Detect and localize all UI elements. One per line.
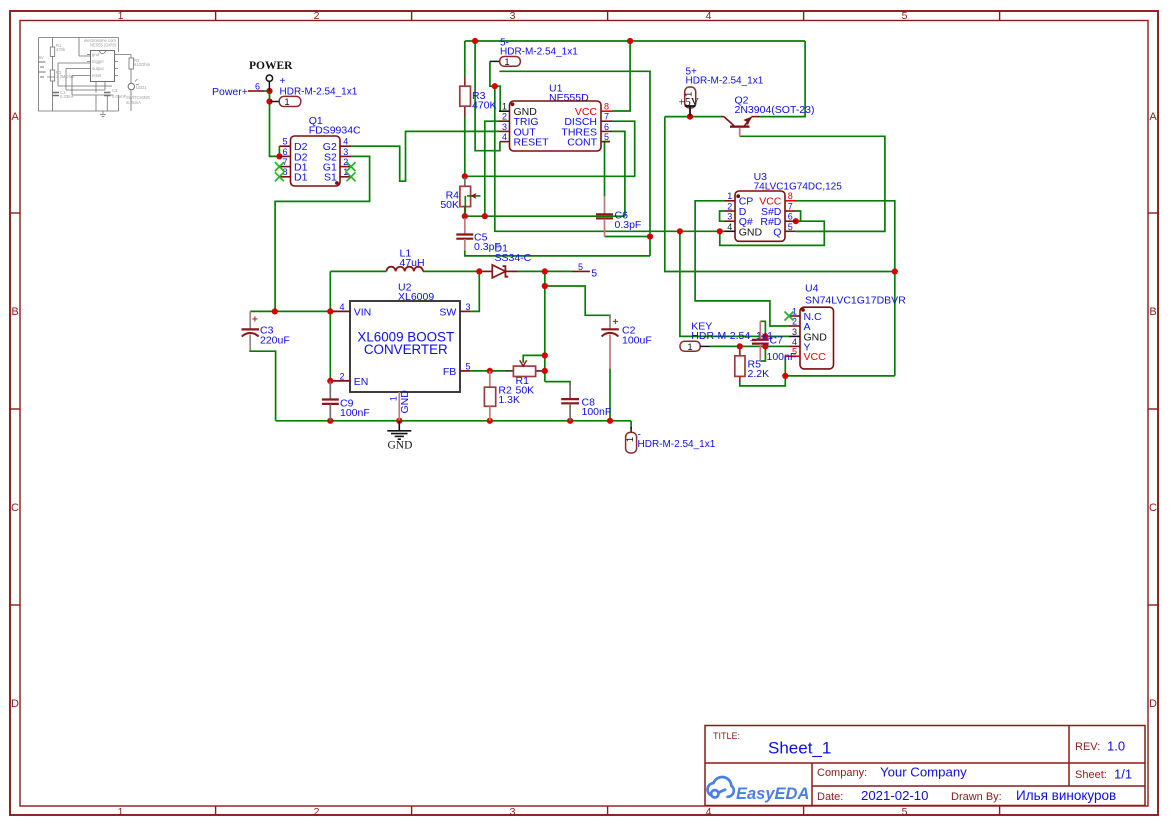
svg-text:2.2K: 2.2K xyxy=(748,368,770,380)
svg-text:C: C xyxy=(11,502,19,514)
svg-text:8: 8 xyxy=(604,102,609,112)
svg-text:B: B xyxy=(1149,306,1156,318)
junction logic GND rail to U4 xyxy=(677,228,683,234)
svg-text:2: 2 xyxy=(792,316,797,326)
svg-text:+: + xyxy=(613,317,619,328)
svg-text:trigger: trigger xyxy=(92,59,104,64)
svg-text:1: 1 xyxy=(625,437,636,442)
svg-text:Power+: Power+ xyxy=(212,86,248,98)
svg-text:Илья винокуров: Илья винокуров xyxy=(1016,788,1116,803)
svg-text:NE555 (DIP8): NE555 (DIP8) xyxy=(90,43,117,48)
wire C5 bottom to x650 xyxy=(465,251,650,256)
svg-text:CONVERTER: CONVERTER xyxy=(364,342,448,357)
svg-text:RESET: RESET xyxy=(514,137,550,149)
wire U1 CONT to C6 top xyxy=(605,142,611,197)
wire U3 GND to R#D loop xyxy=(720,221,825,245)
wire Q1 pin5 to pin6 xyxy=(278,146,280,156)
wire Power+ to junction xyxy=(264,90,270,92)
capacitor C7 100nF xyxy=(752,321,796,363)
svg-text:1/1: 1/1 xyxy=(1114,767,1132,782)
svg-text:GND: GND xyxy=(388,440,413,452)
svg-text:5: 5 xyxy=(902,10,908,22)
svg-text:1: 1 xyxy=(727,191,732,201)
wire U3 pins7-6 bracket xyxy=(796,211,801,221)
svg-text:1.3K: 1.3K xyxy=(498,394,520,406)
svg-text:3: 3 xyxy=(465,302,470,312)
svg-text:2021-02-10: 2021-02-10 xyxy=(861,788,928,803)
svg-text:5: 5 xyxy=(282,137,287,147)
svg-text:2: 2 xyxy=(314,10,320,22)
svg-text:HDR-M-2.54_1x1: HDR-M-2.54_1x1 xyxy=(638,439,716,450)
junction R5 top on KEY net xyxy=(737,343,743,349)
wire C8 top xyxy=(545,382,570,385)
svg-text:470k: 470k xyxy=(56,47,66,52)
svg-text:EasyEDA: EasyEDA xyxy=(736,785,809,803)
wire R3 bottom to DISCH node xyxy=(464,116,466,176)
svg-text:4: 4 xyxy=(727,222,732,232)
wire U3 pins2-3 bracket xyxy=(720,211,725,221)
IC U2 XL6009 xyxy=(333,282,471,421)
svg-text:B: B xyxy=(11,306,18,318)
svg-text:3: 3 xyxy=(727,212,732,222)
junction C9 on GND rail xyxy=(327,418,333,424)
wire C3 bottom loop xyxy=(250,350,275,421)
capacitor C8 100nF xyxy=(561,382,611,421)
junction C2 on GND rail xyxy=(607,418,613,424)
wire VIN vertical to L1 and EN xyxy=(329,271,331,381)
junction U2 GND pin on GND rail xyxy=(396,418,402,424)
wire U1 RESET hook to rail xyxy=(475,41,500,151)
wire U3 VCC to +5V vertical xyxy=(796,201,895,376)
svg-text:GND: GND xyxy=(739,226,763,238)
svg-text:1: 1 xyxy=(118,10,124,22)
svg-text:4: 4 xyxy=(706,806,712,818)
wire +5V down right loop xyxy=(665,117,895,272)
wire VCC top rail y41 xyxy=(465,40,805,42)
svg-text:Sheet:: Sheet: xyxy=(1075,769,1107,781)
svg-text:LED1: LED1 xyxy=(136,85,147,90)
junction Q1 pin6 xyxy=(276,153,282,159)
svg-text:6: 6 xyxy=(788,212,793,222)
junction EN pin / C9 xyxy=(327,378,333,384)
svg-text:5: 5 xyxy=(578,262,583,272)
netport 5 xyxy=(572,262,598,279)
wire logic GND rail y231 xyxy=(495,86,725,231)
svg-text:3: 3 xyxy=(510,10,516,22)
svg-text:0.33mF: 0.33mF xyxy=(60,94,75,99)
svg-text:SS34-C: SS34-C xyxy=(495,252,532,264)
wire rail y216 R4/C5 to THRES xyxy=(465,215,625,217)
svg-text:4: 4 xyxy=(706,10,712,22)
wire C6 bottom to x650 xyxy=(605,236,651,238)
svg-text:4: 4 xyxy=(502,132,507,142)
resistor R5 2.2K xyxy=(735,346,769,382)
junction C7 top on U4 GND net xyxy=(762,333,768,339)
junction R1 wiper branch xyxy=(542,352,548,358)
wire R1 right terminal xyxy=(542,370,545,372)
svg-text:C7: C7 xyxy=(770,335,784,347)
header HDR-M-2.54_1x1 (bottom) xyxy=(625,427,716,453)
svg-text:w.25mA: w.25mA xyxy=(126,100,141,105)
junction C2 top branch xyxy=(542,283,548,289)
title block texts xyxy=(713,731,1132,803)
svg-text:910Ohm: 910Ohm xyxy=(134,62,151,67)
svg-text:5: 5 xyxy=(604,132,609,142)
junction 555 VCC rail / pin8 xyxy=(627,38,633,44)
svg-text:SN74LVC1G17DBVR: SN74LVC1G17DBVR xyxy=(805,295,906,307)
junction +5V node xyxy=(687,114,693,120)
svg-text:VIN: VIN xyxy=(354,306,372,318)
svg-text:6: 6 xyxy=(255,82,260,92)
svg-text:FDS9934C: FDS9934C xyxy=(309,124,361,136)
wire bottom HDR drop xyxy=(630,421,632,429)
junction C7 bottom on KEY net xyxy=(762,343,768,349)
junction FB / R1 / R2 xyxy=(487,368,493,374)
junction R3/R4/DISCH xyxy=(462,173,468,179)
title block xyxy=(705,726,1145,806)
wires (green nets) xyxy=(250,41,895,428)
wire U1 TRIG down xyxy=(485,121,499,216)
svg-text:2: 2 xyxy=(502,112,507,122)
resistor R2 1.3K xyxy=(484,371,520,421)
wire D1 cathode to net5 xyxy=(517,270,572,272)
svg-text:2N3904(SOT-23): 2N3904(SOT-23) xyxy=(735,104,815,116)
potentiometer R4 50K xyxy=(440,178,480,217)
frame row labels xyxy=(11,111,1157,710)
wire Power+ rail down to Q1 pin6 xyxy=(270,91,280,156)
svg-text:5: 5 xyxy=(465,361,470,371)
svg-text:6: 6 xyxy=(604,122,609,132)
junction 555 GND / header 5- xyxy=(492,83,498,89)
svg-text:100uF: 100uF xyxy=(622,335,652,347)
power flag +5V xyxy=(679,96,700,116)
svg-text:7: 7 xyxy=(788,201,793,211)
wire U1 THRES down xyxy=(612,131,625,216)
capacitor C2 100uF xyxy=(601,315,651,369)
net label Power+ pin 6 xyxy=(212,82,264,99)
EasyEDA logo xyxy=(707,777,809,803)
svg-text:CONT: CONT xyxy=(567,137,597,149)
wire to L1 left xyxy=(330,270,386,272)
junction Power+ at net flag xyxy=(266,88,272,94)
svg-text:HDR-M-2.54_1x1: HDR-M-2.54_1x1 xyxy=(686,76,764,87)
wire U4 VCC down to node xyxy=(784,356,786,376)
wire U1 GND hook xyxy=(495,86,500,111)
IC U3 74LVC1G74DC,125 xyxy=(725,171,843,241)
svg-text:A: A xyxy=(11,111,19,123)
svg-text:D: D xyxy=(1149,698,1157,710)
svg-text:1: 1 xyxy=(118,806,124,818)
wire KEY to U4 Y xyxy=(710,345,789,347)
svg-text:S1: S1 xyxy=(324,172,337,184)
svg-text:D: D xyxy=(11,698,19,710)
wire logic GND down to U4 GND xyxy=(680,231,789,336)
svg-text:Drawn By:: Drawn By: xyxy=(951,791,1002,803)
svg-text:7: 7 xyxy=(604,112,609,122)
junction +5V right loop xyxy=(892,268,898,274)
svg-text:100nF: 100nF xyxy=(340,407,370,419)
svg-text:C: C xyxy=(1149,502,1157,514)
junction U3 R#D pin xyxy=(793,218,799,224)
wire SW up to D1 node xyxy=(470,271,479,311)
wire R5 bottom loop xyxy=(740,376,786,386)
svg-text:1: 1 xyxy=(284,97,289,108)
junction C6 bottom xyxy=(647,233,653,239)
wire U1 DISCH to R4 top xyxy=(465,121,635,176)
wire main GND rail xyxy=(276,420,631,422)
svg-text:Your Company: Your Company xyxy=(880,765,967,780)
transistor Q1 FDS9934C xyxy=(275,115,361,186)
svg-text:C2: C2 xyxy=(112,88,118,93)
svg-text:0.01mF: 0.01mF xyxy=(112,94,127,99)
junction R4 bottom / C5 xyxy=(462,213,468,219)
header P1 HDR-M-2.54_1x1 (Power+) xyxy=(270,76,358,108)
wire R3 top xyxy=(464,41,466,77)
wire L1 right to D1 node xyxy=(423,270,483,272)
header HDR-M-2.54_1x1 (net 5-) xyxy=(490,38,578,68)
svg-text:100nF: 100nF xyxy=(767,351,797,363)
svg-text:6: 6 xyxy=(282,147,287,157)
svg-text:3: 3 xyxy=(510,806,516,818)
svg-text:reset: reset xyxy=(92,73,102,78)
junction U4 VCC / R5 xyxy=(782,373,788,379)
wire U3 CP to U4 A xyxy=(695,201,789,326)
svg-text:470K: 470K xyxy=(472,100,497,112)
junction U3 GND pin xyxy=(717,228,723,234)
junction L1 / D1 / SW xyxy=(476,268,482,274)
svg-text:5: 5 xyxy=(788,222,793,232)
svg-text:Company:: Company: xyxy=(817,767,867,779)
svg-text:FB: FB xyxy=(443,366,456,378)
wire C2 top path xyxy=(545,286,610,318)
svg-text:+: + xyxy=(280,76,286,87)
svg-text:3: 3 xyxy=(792,327,797,337)
capacitor C6 0.3pF xyxy=(596,196,641,236)
svg-text:1: 1 xyxy=(389,396,399,401)
wire HDR 5- pin down xyxy=(490,61,495,86)
ground flag GND xyxy=(387,421,412,452)
junction R2 on GND rail xyxy=(487,418,493,424)
svg-text:1: 1 xyxy=(502,102,507,112)
wire U1 VCC to rail xyxy=(612,41,630,111)
svg-text:EN: EN xyxy=(354,376,369,388)
svg-text:GND: GND xyxy=(399,390,411,414)
svg-text:U4: U4 xyxy=(805,283,819,295)
svg-text:2: 2 xyxy=(314,806,320,818)
junction TRIG rail xyxy=(482,213,488,219)
svg-text:Q: Q xyxy=(773,226,781,238)
wire Q2 emitter to rail xyxy=(760,41,806,117)
svg-text:0.3pF: 0.3pF xyxy=(615,219,642,231)
svg-text:50K: 50K xyxy=(440,199,459,211)
svg-text:3: 3 xyxy=(502,122,507,132)
wire x650 vertical with top horizontal y71 xyxy=(499,71,650,256)
svg-text:+5V: +5V xyxy=(679,96,700,108)
capacitor C9 100nF xyxy=(322,381,370,421)
wire C2/R1 vertical xyxy=(544,271,546,381)
svg-text:3.3MOhm: 3.3MOhm xyxy=(56,74,75,79)
svg-text:9V: 9V xyxy=(39,55,44,60)
wire C7 bottom bracket xyxy=(760,346,765,361)
header KEY HDR-M-2.54_1x1 xyxy=(680,320,773,353)
resistor R3 470K xyxy=(460,77,497,117)
svg-text:SW: SW xyxy=(439,306,456,318)
frame column labels bottom xyxy=(118,806,908,818)
IC U1 NE555D xyxy=(499,83,612,152)
wire Q1 S2 to C3/VIN node xyxy=(275,156,370,311)
wire +5V node to Q2 collector xyxy=(665,116,721,118)
svg-text:POWER: POWER xyxy=(249,60,293,72)
wire Q2 base to U3 Q xyxy=(740,136,885,231)
svg-text:+: + xyxy=(252,315,258,326)
capacitor C3 220uF xyxy=(242,311,290,350)
svg-text:4: 4 xyxy=(339,302,344,312)
junction C8 on GND rail xyxy=(567,418,573,424)
svg-text:A: A xyxy=(1149,111,1157,123)
junction R1 right terminal xyxy=(542,368,548,374)
svg-text:D1: D1 xyxy=(294,172,308,184)
svg-text:Date:: Date: xyxy=(817,791,843,803)
wire C3 top / VIN rail xyxy=(250,310,336,312)
svg-text:100nF: 100nF xyxy=(582,406,612,418)
svg-text:TITLE:: TITLE: xyxy=(713,731,740,741)
svg-text:4: 4 xyxy=(343,137,348,147)
svg-text:1.0: 1.0 xyxy=(1107,739,1125,754)
svg-text:gnd: gnd xyxy=(92,52,100,57)
junction Power+ header pin xyxy=(266,98,272,104)
svg-text:output: output xyxy=(92,66,104,71)
svg-text:VCC: VCC xyxy=(804,351,827,363)
inductor L1 47uH xyxy=(387,248,425,272)
junction 555 VCC rail / RESET xyxy=(472,38,478,44)
svg-text:3: 3 xyxy=(343,147,348,157)
svg-text:4: 4 xyxy=(792,337,797,347)
frame column labels top xyxy=(118,10,908,22)
junction C3 / VIN rail xyxy=(272,308,278,314)
svg-text:1: 1 xyxy=(504,57,509,68)
svg-text:2: 2 xyxy=(727,201,732,211)
wire Q1 G2 to U1 OUT xyxy=(351,131,499,181)
svg-text:5: 5 xyxy=(591,267,597,279)
transistor Q2 2N3904(SOT-23) xyxy=(721,95,814,137)
wire FB to R1 left xyxy=(470,370,504,372)
wire C2 bottom xyxy=(609,368,611,421)
netflag POWER xyxy=(249,60,293,91)
wire +5V to R5/U4 VCC xyxy=(785,375,895,377)
potentiometer R1 50K xyxy=(505,360,542,396)
svg-text:220uF: 220uF xyxy=(260,335,290,347)
svg-text:Sheet_1: Sheet_1 xyxy=(768,739,831,758)
svg-text:5: 5 xyxy=(902,806,908,818)
junction D1 cathode net 5 xyxy=(542,268,548,274)
wire C7 top bracket xyxy=(760,321,765,336)
IC U4 SN74LVC1G17DBVR xyxy=(785,283,907,369)
diode D1 SS34-C xyxy=(483,243,532,278)
junction VIN pin xyxy=(327,308,333,314)
header HDR-M-2.54_1x1 (net 5+) xyxy=(684,67,764,109)
svg-text:1: 1 xyxy=(687,342,692,353)
capacitor C5 0.3pF xyxy=(456,218,501,253)
svg-text:2: 2 xyxy=(339,371,344,381)
svg-text:REV:: REV: xyxy=(1075,741,1100,753)
wire R1 wiper xyxy=(523,355,545,362)
svg-text:8: 8 xyxy=(788,191,793,201)
